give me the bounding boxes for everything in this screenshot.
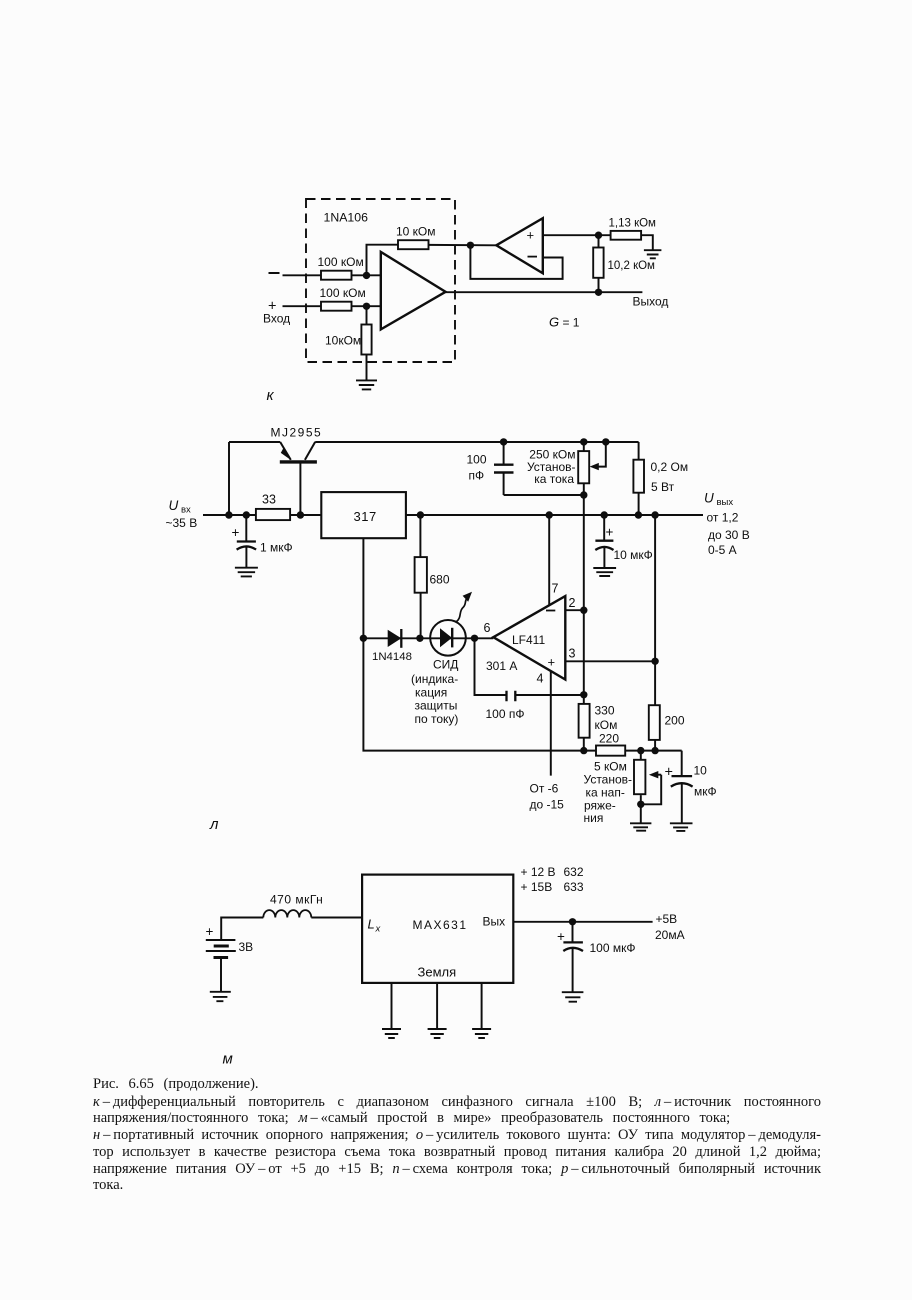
svg-text:ка тока: ка тока [534,472,574,486]
svg-text:100 пФ: 100 пФ [486,707,525,721]
resistor R10 200 [649,705,660,740]
resistor R1 100 kOm (inverting input) [321,271,352,280]
node diode anode junction [360,635,367,642]
svg-text:220: 220 [599,731,619,745]
svg-text:вых: вых [717,497,734,508]
transistor Q1 base bar [280,460,317,463]
wire inductor to IC [311,917,362,919]
node pot2 top rail [637,747,644,754]
ground 1 under IC [382,1029,401,1038]
wire main rail input side [203,514,321,516]
wire pot2 to ground [640,804,642,823]
diode D1 1N4148 [388,630,402,647]
capacitor C1 1 mkF [245,515,247,567]
node output cap junction [569,918,576,925]
label U3 minus [546,610,555,612]
wire R1 to op-amp [352,274,381,276]
svg-text:пФ: пФ [469,469,485,483]
capacitor C4 10 mkF [603,515,605,568]
svg-text:G = 1: G = 1 [549,315,580,330]
ground R5 [644,250,662,258]
op-amp A2 follower [496,218,543,273]
ground battery [210,992,231,1001]
svg-text:0,2 Ом: 0,2 Ом [651,460,689,474]
svg-text:U: U [169,498,179,513]
IC U4 MAX631 box [362,875,513,983]
svg-text:3В: 3В [239,940,254,954]
ground C4 [593,568,616,576]
node output divider junction [595,289,602,296]
svg-text:4: 4 [537,671,544,685]
svg-text:U: U [704,491,714,506]
svg-text:0-5 А: 0-5 А [708,543,737,557]
wire A2 plus input to divider [543,234,611,236]
svg-text:Выход: Выход [633,294,669,308]
potentiometer R8 wiper [596,442,606,467]
wire IC ground stub 2 [436,983,438,1029]
resistor R7 33 [256,509,290,520]
svg-text:л: л [209,816,219,833]
ground 2 under IC [428,1029,447,1038]
wire main rail output side [406,514,703,516]
svg-text:+: + [206,924,214,939]
svg-text:защиты: защиты [415,699,458,713]
svg-text:10,2 кОм: 10,2 кОм [608,260,656,272]
ground 3 under IC [472,1029,491,1038]
svg-text:10кОм: 10кОм [325,333,361,347]
resistor R13 220 [596,746,625,756]
capacitor C3 100 pF (bottom) [475,638,584,695]
potentiometer R14 wiper [657,774,662,776]
wire 317 adj down [363,538,681,750]
svg-text:10: 10 [694,764,708,778]
svg-text:20мА: 20мА [655,928,685,942]
wire R4 to ground [366,355,368,381]
svg-text:317: 317 [354,509,377,524]
wire junction to R4 [366,306,368,324]
battery B1 3V plates [206,940,236,951]
resistor R9 0,2 Om 5 Vt [638,442,640,515]
svg-text:33: 33 [262,492,276,506]
svg-text:1NA106: 1NA106 [324,211,369,225]
transistor Q1 emitter [280,442,291,460]
LED D2 light arrow [457,599,467,622]
svg-text:633: 633 [564,880,584,894]
svg-text:ка нап-: ка нап- [586,785,625,799]
minus input polarity mark [269,272,280,274]
svg-text:632: 632 [564,865,584,879]
resistor R3 100 kOm (non-inverting input) [321,302,352,311]
wire battery to inductor [221,918,263,940]
svg-text:3: 3 [569,646,576,660]
LED D2 SID circle [430,620,466,656]
wire left riser to top rail [228,442,230,515]
svg-text:+: + [606,525,614,540]
resistor R4 10 kOm to ground [361,325,371,355]
capacitor C5 10 mkF [681,751,683,823]
svg-text:7: 7 [552,582,559,596]
resistor R12 330 kOm [579,704,590,738]
svg-text:5 кОм: 5 кОм [594,759,627,773]
svg-text:Вых: Вых [483,914,506,928]
svg-text:L: L [368,917,375,932]
svg-text:1 мкФ: 1 мкФ [260,540,293,554]
wire battery to ground [220,958,222,992]
svg-text:~35 В: ~35 В [166,516,198,530]
svg-text:От -6: От -6 [530,781,559,795]
svg-text:1N4148: 1N4148 [372,651,412,663]
wire IC ground stub 1 [391,983,393,1029]
ground pot2 [630,823,651,830]
IC U1 dashed outline 1NA106 [306,199,455,362]
wire pin 3 [565,660,655,662]
wire C2 bottom to pot bottom [504,494,584,496]
svg-text:+ 15В: + 15В [521,880,553,894]
svg-text:кОм: кОм [595,718,618,732]
wire pin 4 [550,671,552,776]
svg-text:Земля: Земля [418,964,457,979]
node pot bottom junction [580,491,587,498]
svg-text:100 мкФ: 100 мкФ [590,941,636,955]
node C3 330k junction [580,691,587,698]
node A2 output junction [467,242,474,249]
svg-text:до -15: до -15 [530,797,565,811]
svg-text:(индика-: (индика- [411,672,458,686]
op-amp U3 LF411 [493,596,565,679]
node inverting input junction [363,272,370,279]
svg-text:470 мкГн: 470 мкГн [270,893,323,907]
wire plus input [283,305,322,307]
svg-text:2: 2 [569,596,576,610]
node LED cathode junction [471,635,478,642]
ground under R4 [356,380,377,389]
svg-text:до 30 В: до 30 В [708,528,750,542]
node base junction [297,511,304,518]
node R10 riser top [651,511,658,518]
svg-text:LF411: LF411 [512,633,545,647]
svg-text:680: 680 [430,572,450,586]
node pin 2 junction [580,607,587,614]
node C4 top [601,511,608,518]
wire output A1 [446,291,643,293]
wire Q1 base to main rail [299,462,301,515]
svg-text:Вход: Вход [263,312,290,326]
transistor Q1 collector [305,442,315,460]
label A2 minus [528,256,538,258]
svg-text:Установ-: Установ- [584,772,633,786]
node R10 bottom rail [651,747,658,754]
wire R5 to ground [641,235,653,250]
node C2 top rail [500,438,507,445]
node C1 junction [243,511,250,518]
svg-text:СИД: СИД [433,657,458,671]
svg-text:10 кОм: 10 кОм [396,224,436,238]
ground C1 [235,568,258,577]
svg-text:100 кОм: 100 кОм [320,286,366,300]
svg-text:+: + [232,525,240,540]
node 680 bottom junction [416,635,423,642]
svg-text:к: к [267,387,275,404]
wire top rail left [229,441,280,443]
IC U2 317 regulator [321,492,406,538]
wire IC ground stub 3 [481,983,483,1029]
inductor L1 470 mkGn [263,910,311,917]
wire A2 feedback loop [470,245,562,279]
svg-text:301 А: 301 А [486,659,517,673]
svg-text:+: + [548,655,556,670]
svg-text:по току): по току) [415,712,459,726]
node wiper top rail [602,438,609,445]
resistor R2 10 kOm feedback [398,240,429,249]
svg-text:вх: вх [181,505,191,516]
svg-text:кация: кация [415,685,447,699]
wire R10 200 riser [654,515,656,751]
resistor R6 10,2 kOm [598,235,600,292]
svg-text:м: м [223,1050,233,1067]
wire output [513,921,652,923]
figure caption [93,1076,821,1194]
svg-text:100: 100 [467,452,487,466]
node non-inverting input junction [363,303,370,310]
svg-text:5 Вт: 5 Вт [651,480,675,494]
svg-text:от 1,2: от 1,2 [707,510,739,524]
resistor R11 680 [419,515,421,638]
svg-text:100 кОм: 100 кОм [318,255,364,269]
potentiometer R14 5 kOm body [640,751,642,805]
svg-text:MAX631: MAX631 [413,918,468,932]
op-amp A1 [381,252,446,330]
svg-text:MJ2955: MJ2955 [271,426,323,440]
node divider top junction [595,232,602,239]
node pin7 top [546,511,553,518]
capacitor C2 100 pF (top) [503,442,505,495]
wire top rail right [315,441,638,443]
node R12 bottom rail [580,747,587,754]
LED D2 diode [440,628,452,647]
resistor R5 1,13 kOm [611,231,642,240]
node 680 top [417,511,424,518]
wire feedback to follower output [429,244,497,246]
transistor Q1 emitter arrow [281,448,290,459]
svg-text:10 мкФ: 10 мкФ [614,548,653,562]
wire feedback riser [367,245,399,276]
svg-text:1,13 кОм: 1,13 кОм [609,217,657,229]
node pin 3 junction [651,658,658,665]
svg-text:ния: ния [584,811,604,825]
svg-text:+ 12 В: + 12 В [521,865,556,879]
svg-text:200: 200 [665,713,685,727]
wire pot column (pot top to pin2 to 330k to bottom rail) [583,442,585,751]
node pot top rail [580,438,587,445]
svg-text:330: 330 [595,703,615,717]
capacitor C6 100 mkF [572,922,574,992]
wire diode row [363,637,493,639]
wire pin 2 [565,609,584,611]
svg-text:мкФ: мкФ [694,785,717,799]
node pot2 bottom junction [637,801,644,808]
svg-text:6: 6 [484,621,491,635]
node shunt bottom [635,511,642,518]
wire pin 7 [548,515,550,605]
node riser junction [225,511,232,518]
ground C5 [670,823,693,831]
svg-text:+5В: +5В [656,912,678,926]
svg-text:x: x [375,924,382,935]
wire minus input [283,274,322,276]
svg-text:+: + [527,228,535,243]
potentiometer R8 250 kOm body [578,451,589,483]
wire R3 to op-amp [352,305,381,307]
svg-text:+: + [665,765,673,781]
ground C6 [562,992,584,1002]
